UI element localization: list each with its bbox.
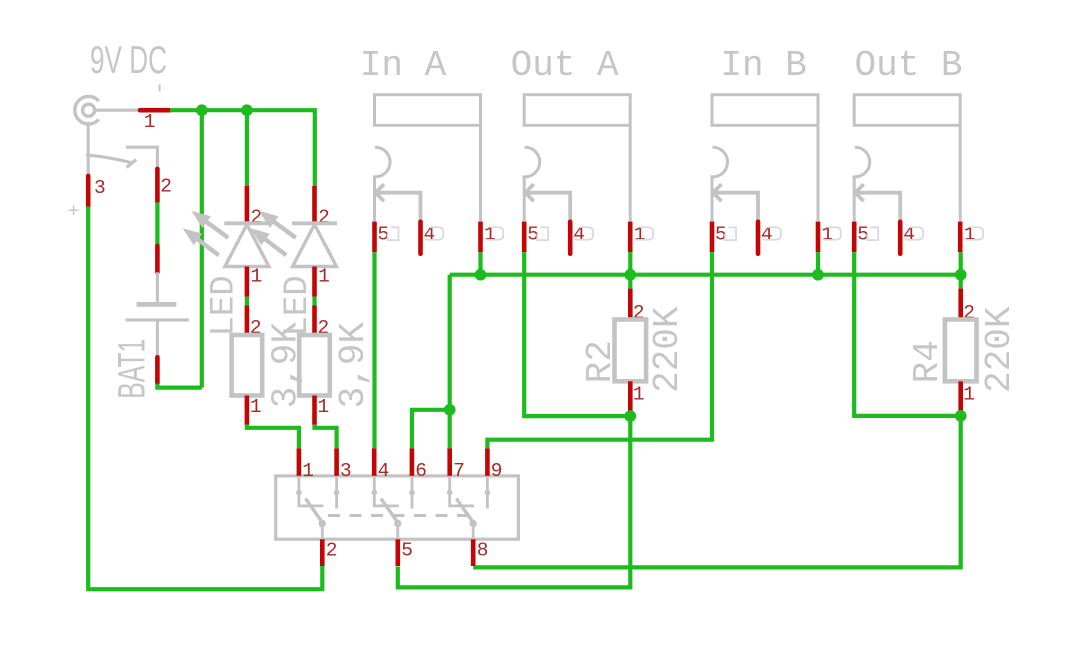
svg-text:In A: In A [360,45,447,86]
svg-text:In B: In B [720,45,806,86]
wire rail B to R4 pin2 [959,275,963,289]
pin 5 of S1 (red stub) [395,539,400,566]
pin 7 of S1 (red stub) [447,448,452,476]
svg-text:1: 1 [144,111,156,133]
svg-text:+: + [68,201,79,222]
svg-text:2: 2 [326,539,338,561]
svg-text:9V DC: 9V DC [90,39,167,82]
svg-text:5: 5 [401,539,413,561]
svg-text:1: 1 [251,265,263,287]
resistor R1 pin2 stub [245,306,250,336]
wire J1 pin3 to switch pin2 (battery +) [88,207,322,590]
svg-text:R2: R2 [580,340,621,383]
pin 2 of S1 (red stub) [320,539,325,566]
wire R2 pin1 down-left to switch pin5 [398,416,631,587]
wire V+ drop to BAT1 return [200,110,204,387]
pin 5 of OutA (red stub) [522,222,527,253]
wire J1 sleeve lead down [87,122,90,176]
tip glyph of OutB pin4 [905,227,923,240]
wire net V+ top rail [170,110,315,186]
pin 1 of BAT1 (red stub) [155,246,160,272]
pin 1 of J1 (red stub) [140,108,170,113]
svg-text:1: 1 [633,384,645,406]
junction rail B end / OutB pin1 / R4 pin2 [955,269,967,281]
sleeve glyph of InB [725,227,736,240]
tip glyph of InB pin1 [823,227,841,240]
LED LED1 pin2 stub [245,186,250,225]
junction rail B / InA pin1 [475,269,487,281]
wire BAT1 pin2 to V+ rail [157,384,201,388]
resistor R1 body [232,335,263,396]
pin 2 of BAT1 (red stub) [155,357,160,383]
wire BAT1 pin1 to J1 pin2 (green) [155,202,159,246]
svg-text:R4: R4 [907,340,948,383]
jack OutA body [524,95,630,222]
pin 6 of S1 (red stub) [410,448,415,476]
pin 5 of InA (red stub) [372,222,377,253]
pin 1 of R3 (red stub) [312,396,317,425]
wire R4 pin1 down-left to switch pin8 [473,416,961,568]
power jack J1 barrel symbol [75,96,99,124]
switch S1 pole 3 internals [450,476,488,539]
pin 5 of OutB (red stub) [852,222,857,253]
pin 1 of InB (red stub) [816,222,821,253]
jack InB tip switch arrow [713,184,758,222]
tip glyph of OutA pin4 [575,227,593,240]
svg-text:2: 2 [160,176,172,198]
jack OutA tip switch arrow [525,184,570,222]
switch S1 pole 2 internals [374,476,412,539]
jack InA tip switch arrow [376,184,421,222]
tip glyph of InB pin4 [763,227,781,240]
junction rail B / InB pin1 [812,269,824,281]
pin 1 of LED2 (red stub) [312,267,317,297]
svg-text:220K: 220K [647,306,688,393]
wire J1 pin1 lead [95,109,140,112]
wire OutB pin5 down to R4 pin1 [854,252,961,416]
pin 5 of InB (red stub) [710,222,715,253]
tip glyph of OutB pin1 [965,227,983,240]
svg-text:BAT1: BAT1 [111,339,153,399]
wire InB pin5 to switch pin9 [487,252,712,448]
svg-text:Out B: Out B [855,45,963,86]
svg-text:9: 9 [491,460,503,482]
sleeve glyph of OutA [537,227,548,240]
pin 4 of OutA (red stub) [568,222,573,254]
wire V+ drop to LED1 [245,110,249,186]
LED LED1 symbol [224,223,269,266]
wire R1 pin1 to switch pin1 [247,425,299,449]
pin 1 of OutB (red stub) [958,222,963,253]
wire InB pin1 down to rail B [816,252,820,275]
wire R3 pin1 to switch pin3 [315,425,337,449]
junction rail B / OutA pin1 / R2 pin2 [624,269,636,281]
svg-text:1: 1 [250,396,262,418]
wire net rail B horizontal [450,273,961,277]
svg-text:1: 1 [318,396,330,418]
pin 4 of OutB (red stub) [898,222,903,254]
wire OutA pin5 down to R2 pin1 [524,252,630,416]
svg-text:3,9K: 3,9K [333,322,374,409]
resistor R3 pin2 stub [312,306,317,336]
wire rail B branch down to switch pins 6,7 [412,275,450,449]
pin 2 of R4 (red stub) [958,289,963,320]
LED LED1 emission arrows [184,212,228,256]
pin 1 of S1 (red stub) [297,448,302,476]
pin 2 of R2 (red stub) [628,289,633,320]
power jack J1 minus mark [159,85,161,92]
switch S1 body [276,476,519,539]
wire LED1 pin1 to resistor (green) [245,297,249,306]
svg-text:6: 6 [415,460,427,482]
pin 1 of R1 (red stub) [245,396,250,425]
junction R4 pin1 / OutB pin5 / switch pin8 [955,410,967,422]
svg-text:4: 4 [378,460,390,482]
svg-text:2: 2 [318,207,330,229]
LED LED2 emission arrows [251,212,295,256]
pin 3 of J1 (red stub) [86,176,91,207]
tip glyph of InA pin4 [426,227,444,240]
pin 3 of S1 (red stub) [334,448,339,476]
resistor R3 body [299,335,330,396]
wire InA pin1 down to rail B [478,252,482,275]
junction R2 pin1 / OutA pin5 / switch pin5 [624,410,636,422]
svg-text:1: 1 [963,384,975,406]
LED LED2 pin2 stub [312,186,317,225]
svg-text:8: 8 [477,539,489,561]
wire rail B to R2 pin2 [628,275,632,289]
wire OutA pin1 down to rail B [628,252,632,275]
battery BAT1 symbol [126,272,189,357]
svg-text:7: 7 [453,460,465,482]
wire switch pin7 up to junction [448,410,452,449]
LED LED2 symbol [292,223,337,266]
svg-text:2: 2 [251,207,263,229]
pin 1 of InA (red stub) [478,222,483,253]
jack InB body [712,95,818,222]
svg-text:3: 3 [94,177,106,199]
junction V+ at x=246.9 [241,104,253,116]
svg-text:220K: 220K [979,306,1020,393]
jack OutB tip switch arrow [855,184,900,222]
junction V+ at x=201.8 [196,104,208,116]
sleeve glyph of OutB [867,227,878,240]
svg-text:1: 1 [302,460,314,482]
resistor R2 body [615,320,647,382]
svg-text:Out A: Out A [511,45,619,86]
power jack J1 switch lever [86,153,91,158]
switch S1 mechanical coupling dashed line [328,514,477,517]
pin 1 of R4 (red stub) [958,381,963,412]
pin 4 of InB (red stub) [756,222,761,254]
svg-text:1: 1 [318,265,330,287]
pin 9 of S1 (red stub) [485,448,490,476]
svg-text:LED: LED [206,275,244,336]
pin 4 of S1 (red stub) [372,448,377,476]
resistor R4 body [945,320,977,382]
switch S1 pole 1 internals [299,476,337,539]
wire OutB pin1 down to rail B [959,252,963,275]
sleeve glyph of InA [388,227,399,240]
wire LED2 pin1 to resistor (green) [312,297,316,306]
jack OutB body [854,95,960,222]
tip glyph of InA pin1 [486,227,504,240]
pin 4 of InA (red stub) [418,222,423,254]
pin 1 of R2 (red stub) [628,381,633,412]
pin 8 of S1 (red stub) [471,539,476,566]
wire InA pin5 to switch pin4 [372,252,376,448]
junction switch pins 6-7 [444,404,456,416]
pin 2 of J1 (red stub) [155,169,160,202]
pin 1 of LED1 (red stub) [245,267,250,297]
svg-text:3: 3 [340,460,352,482]
pin 1 of OutA (red stub) [628,222,633,253]
jack InA body [374,95,480,222]
tip glyph of OutA pin1 [635,227,653,240]
wire J1 pin2 internal L [126,147,157,169]
